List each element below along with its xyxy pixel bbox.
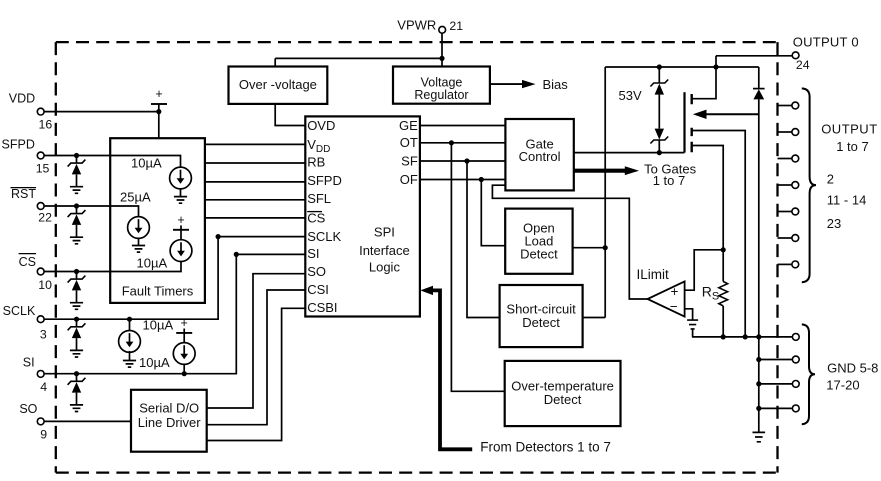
wire + terminal to Fault Timers [158, 104, 160, 138]
wire OT row [420, 142, 506, 144]
block SPI Interface Logic [305, 116, 420, 316]
node VDD junction [156, 109, 161, 114]
svg-text:OUTPUT: OUTPUT [821, 122, 877, 137]
pin VPWR 21 [439, 26, 446, 33]
pin VDD 16 [37, 108, 44, 115]
svg-text:OF: OF [400, 172, 418, 187]
wire ILimit - input to ground reference [685, 309, 693, 320]
svg-text:VPWR: VPWR [397, 17, 436, 32]
wire SCLK row [44, 237, 218, 320]
svg-text:CSBI: CSBI [307, 300, 337, 315]
op-amp U1 ILimit comparator [648, 281, 685, 316]
svg-text:4: 4 [40, 380, 47, 394]
pin SI 4 [37, 371, 44, 378]
svg-text:17-20: 17-20 [826, 378, 859, 393]
pin OUTPUT 6 stub [778, 237, 792, 239]
svg-text:10µA: 10µA [137, 256, 168, 271]
svg-text:25µA: 25µA [120, 189, 151, 204]
svg-text:24: 24 [796, 58, 810, 72]
svg-text:SI: SI [307, 246, 319, 261]
svg-text:From Detectors 1 to 7: From Detectors 1 to 7 [480, 439, 611, 454]
pin SO 9 [37, 418, 44, 425]
zener Z1 53V (gate clamp, top) [658, 67, 660, 83]
wire VPWR stem [441, 33, 443, 66]
wire FT to SPI VDD row [205, 143, 305, 145]
ground (I1) [174, 197, 187, 204]
wire I1 to ground [180, 189, 182, 196]
wire SI row [44, 254, 236, 373]
svg-text:Over -voltage: Over -voltage [239, 77, 317, 92]
svg-text:9: 9 [40, 428, 47, 442]
svg-text:Regulator: Regulator [414, 88, 468, 102]
svg-text:SPI: SPI [374, 225, 395, 240]
block Gate Control [505, 119, 573, 190]
svg-text:3: 3 [40, 328, 47, 342]
pin OUTPUT 7 stub [778, 263, 792, 265]
svg-text:1 to 7: 1 to 7 [836, 139, 869, 154]
wire FT to SPI SFPD row [205, 181, 305, 183]
pin SFPD 15 [37, 152, 44, 159]
svg-text:VDD: VDD [9, 91, 35, 105]
svg-text:1 to 7: 1 to 7 [653, 173, 686, 188]
pin GND (row 1) [792, 334, 799, 341]
wire Over-voltage to SPI OVD [275, 104, 305, 126]
wire OT branch to Over-temperature Detect [451, 143, 504, 391]
svg-text:+: + [177, 213, 184, 227]
wire gate drive (Gate Control to MOSFET gate) [574, 152, 685, 154]
svg-text:SO: SO [307, 264, 326, 279]
pin GND (row 3) [756, 381, 761, 386]
wire FT to SPI RB row [205, 162, 305, 164]
svg-text:SCLK: SCLK [3, 304, 36, 318]
svg-text:RB: RB [307, 154, 325, 169]
pin OUTPUT 1 stub [778, 105, 792, 107]
ground (I4) [123, 361, 136, 368]
wire driver out2 to SPI CSI [207, 290, 306, 425]
wire Open Load output to drain sense line [573, 247, 606, 249]
wire ground bus [692, 336, 792, 338]
svg-text:SO: SO [19, 402, 37, 416]
pin OUTPUT 5 stub [778, 211, 792, 213]
svg-text:Fault Timers: Fault Timers [122, 283, 194, 298]
svg-text:−: − [670, 299, 678, 314]
svg-text:OUTPUT 0: OUTPUT 0 [793, 34, 859, 49]
svg-text:Over-temperature: Over-temperature [511, 378, 614, 393]
wire SF row [420, 160, 506, 162]
pin SCLK 3 [37, 316, 44, 323]
wire GE to Gate Control [420, 125, 506, 127]
svg-text:21: 21 [449, 19, 463, 33]
pin OUTPUT 4 stub [778, 184, 792, 186]
svg-text:CS: CS [307, 210, 325, 225]
brace OUTPUT 1 to 7 [802, 88, 816, 282]
svg-text:Control: Control [519, 149, 561, 164]
svg-text:Detect: Detect [544, 392, 582, 407]
svg-text:CS: CS [19, 255, 36, 269]
svg-text:SFPD: SFPD [2, 138, 35, 152]
pin GND (row 2) [756, 357, 761, 362]
arrow To Gates 1 to 7 [574, 169, 626, 173]
svg-text:GND 5-8: GND 5-8 [827, 361, 878, 376]
svg-text:SCLK: SCLK [307, 229, 341, 244]
wire driver out1 to SPI SO [207, 274, 306, 408]
arrow From Detectors 1 to 7 into SPI [420, 286, 433, 295]
wire source 2 (sense, to RS) [692, 146, 724, 250]
ground (ILimit reference) [687, 320, 698, 329]
zener D1 (SFPD ESD) with ground [74, 153, 79, 158]
svg-text:10µA: 10µA [139, 355, 170, 370]
svg-text:15: 15 [36, 161, 50, 175]
diode D6 (output clamp/body diode) [758, 67, 760, 89]
wire OF row [420, 179, 506, 181]
ground (I2) [132, 246, 145, 253]
wire OUTPUT 0 drain [692, 56, 716, 99]
wire I4 to ground [129, 351, 131, 360]
svg-text:53V: 53V [619, 88, 642, 103]
wire VPWR rail [275, 57, 442, 59]
wire driver out3 to SPI CSBI [207, 308, 306, 440]
svg-text:SFL: SFL [307, 191, 331, 206]
svg-text:22: 22 [38, 211, 52, 225]
svg-text:23: 23 [827, 216, 841, 231]
wire OF branch to Open Load Detect [481, 180, 505, 246]
svg-text:Serial D/O: Serial D/O [139, 400, 199, 415]
wire I2 to ground [138, 238, 140, 245]
svg-text:11 - 14: 11 - 14 [827, 193, 867, 208]
block Fault Timers [110, 138, 205, 303]
block Voltage Regulator [393, 67, 490, 104]
wire CS row [44, 262, 181, 272]
brace GND 5-8 [802, 324, 815, 424]
wire VDD row [44, 111, 158, 113]
wire SO row [44, 420, 131, 422]
wire body/ground line [758, 99, 760, 337]
arrow Bias [490, 83, 523, 85]
svg-text:Short-circuit: Short-circuit [506, 301, 576, 316]
svg-text:+: + [671, 284, 679, 299]
wire SF branch to Short-circuit Detect [467, 161, 500, 318]
svg-text:10: 10 [38, 278, 52, 292]
wire Short-circuit output to drain sense line [583, 317, 606, 319]
wire FT to SPI CS row [205, 217, 305, 219]
svg-text:GE: GE [399, 118, 418, 133]
node VPWR junction [439, 56, 444, 61]
svg-text:Detect: Detect [522, 315, 560, 330]
wire drain-sense vertical [604, 67, 606, 318]
wire drain rail [605, 66, 759, 68]
pin OUTPUT 2 stub [778, 131, 792, 133]
svg-text:SF: SF [401, 153, 418, 168]
wire source 1 (to ground bus) [692, 131, 746, 337]
svg-text:2: 2 [827, 172, 834, 187]
wire SCLK to SPI [218, 236, 305, 238]
zener D5 (SI ESD) with ground [74, 371, 79, 376]
block Serial D/O Line Driver [131, 390, 207, 452]
current source I2 25uA [128, 217, 150, 239]
svg-text:Logic: Logic [369, 260, 401, 275]
svg-text:Bias: Bias [543, 77, 569, 92]
ground (chassis) [753, 432, 766, 441]
current source I1 10uA [170, 167, 192, 189]
block Over-voltage [229, 67, 328, 104]
pin GND (row 4) [756, 406, 761, 411]
svg-text:CSI: CSI [307, 282, 329, 297]
svg-text:+: + [181, 316, 188, 330]
current source I4 10uA [127, 317, 132, 322]
zener D4 (SCLK ESD) with ground [74, 317, 79, 322]
overline RST [11, 187, 37, 189]
svg-text:RST: RST [11, 187, 36, 201]
pin OUTPUT 3 stub [778, 158, 792, 160]
zener D3 (CS ESD) with ground [74, 269, 79, 274]
svg-text:10µA: 10µA [131, 155, 162, 170]
svg-text:10µA: 10µA [143, 318, 174, 333]
wire ILimit + input to sense node [685, 250, 724, 290]
zener Z2 (gate clamp, bottom) [658, 95, 660, 129]
svg-text:ILimit: ILimit [637, 267, 670, 282]
svg-text:SI: SI [23, 356, 35, 370]
svg-text:Detect: Detect [520, 247, 558, 262]
svg-text:OT: OT [400, 135, 418, 150]
wire GND chain [758, 337, 760, 433]
pin OUTPUT 0 (24) [792, 52, 799, 59]
resistor RS [722, 250, 724, 282]
transistor Q1 (output MOSFET) [683, 92, 685, 152]
svg-text:Line Driver: Line Driver [138, 415, 202, 430]
Q1 body arrow [693, 110, 707, 119]
svg-text:OVD: OVD [307, 118, 335, 133]
block Short-circuit Detect [500, 285, 583, 347]
svg-text:Interface: Interface [359, 243, 410, 258]
wire RST row [44, 206, 138, 217]
wire FT to SPI SFL row [205, 199, 305, 201]
zener D2 (RST ESD) with ground [74, 203, 79, 208]
block Over-temperature Detect [505, 361, 621, 426]
svg-text:SFPD: SFPD [307, 173, 342, 188]
svg-text:+: + [155, 87, 162, 101]
IC boundary (dashed) [56, 42, 778, 473]
overline CS [19, 253, 36, 255]
block Open Load Detect [505, 209, 572, 274]
wire SI to SPI [236, 253, 305, 255]
wire SFPD row [44, 156, 180, 168]
wire Over-voltage to VPWR rail [274, 58, 276, 66]
wire ILimit output to Gate Control [492, 185, 647, 299]
svg-text:16: 16 [39, 118, 53, 132]
